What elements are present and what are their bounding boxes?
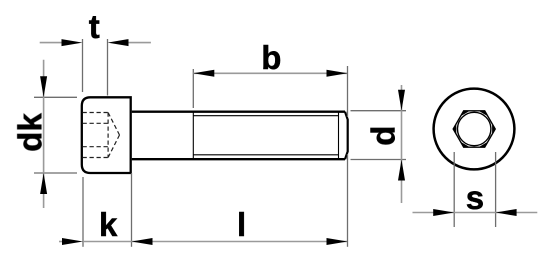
dimension l extension line right upper xyxy=(347,66,349,117)
screw head outline xyxy=(82,97,131,173)
shank top outline xyxy=(132,111,345,113)
dimension dk extension line top xyxy=(34,96,77,98)
dimension b line xyxy=(193,72,347,74)
dimension dk extension line bottom xyxy=(34,172,77,174)
svg-text:d: d xyxy=(365,126,402,146)
dimension s arrow left xyxy=(433,209,454,216)
hex socket corner fill top-right xyxy=(479,111,488,116)
end view outer circle xyxy=(434,89,515,170)
chamfer start line xyxy=(338,113,340,159)
socket hidden line top inner xyxy=(83,122,109,124)
svg-text:b: b xyxy=(261,39,281,76)
dimension dk line xyxy=(43,60,45,208)
thread root line top xyxy=(193,115,338,117)
dimension t extension line right xyxy=(107,39,109,96)
dimension k extension line right xyxy=(131,173,133,247)
socket hidden line top outer xyxy=(83,112,109,114)
dimension d arrow bottom xyxy=(398,160,405,181)
svg-text:s: s xyxy=(466,179,484,216)
dimension k arrow right shared with l xyxy=(132,238,153,245)
dimension l arrow right xyxy=(327,238,348,245)
thread root line bottom xyxy=(193,154,338,156)
dimension d line xyxy=(401,85,403,203)
dimension s line xyxy=(413,212,538,214)
dimension dk arrow top xyxy=(40,76,47,97)
dimension t arrow right xyxy=(108,39,129,46)
svg-text:k: k xyxy=(99,206,118,243)
dimension t line right tail xyxy=(129,42,151,44)
hex socket inscribed circle xyxy=(458,112,491,145)
hex socket corner fill right xyxy=(492,124,495,135)
dimension b arrow left xyxy=(193,70,214,77)
dimension s extension line right xyxy=(495,152,497,227)
hex socket corner fill bottom-right xyxy=(479,142,488,147)
shank bottom outline xyxy=(132,158,345,160)
socket cone hidden line lower xyxy=(108,135,119,158)
dimension d arrow top xyxy=(398,90,405,111)
dimension b arrow right xyxy=(327,70,348,77)
socket hidden line bottom outer xyxy=(83,157,109,159)
dimension k extension line left xyxy=(82,177,84,247)
dimension l extension line right lower xyxy=(347,154,349,247)
socket hidden line bottom inner xyxy=(83,146,109,148)
dimension t line left tail xyxy=(40,42,62,44)
dimension s extension line left xyxy=(453,152,455,227)
hex socket corner fill top-left xyxy=(461,111,470,116)
dimension t arrow left xyxy=(62,39,83,46)
dimension d extension line top xyxy=(351,110,407,112)
end face with chamfers xyxy=(345,112,348,160)
socket depth hidden line vertical xyxy=(107,113,109,158)
dimension t extension line left xyxy=(82,39,84,92)
svg-text:dk: dk xyxy=(11,113,48,152)
svg-text:t: t xyxy=(89,8,100,45)
dimension d extension line bottom xyxy=(351,159,407,161)
dimension b extension line left xyxy=(192,69,194,108)
socket cone hidden line upper xyxy=(108,113,119,136)
hex socket corner fill left xyxy=(453,124,456,135)
dimension k and l line xyxy=(83,241,348,243)
hex socket hexagon xyxy=(453,111,495,147)
hex socket corner fill bottom-left xyxy=(461,142,470,147)
dimension s arrow right xyxy=(496,209,517,216)
svg-text:l: l xyxy=(237,206,246,243)
dimension k arrow left xyxy=(62,238,83,245)
dimension dk arrow bottom xyxy=(40,173,47,194)
thread start line xyxy=(192,112,194,160)
dimension k line left tail xyxy=(59,241,63,243)
